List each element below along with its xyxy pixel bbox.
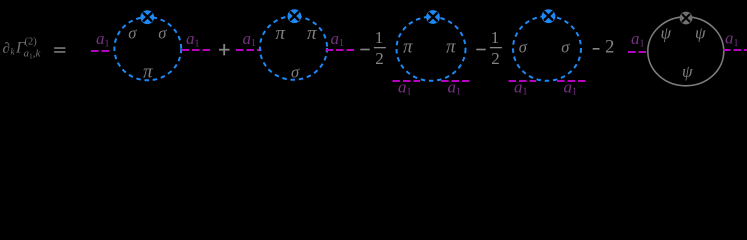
svg-text:1: 1 xyxy=(491,28,500,47)
svg-text:ψ: ψ xyxy=(661,24,672,43)
LHS: dk Gamma^(2)_a1,k xyxy=(3,36,42,60)
external leg a1 (right) xyxy=(723,49,747,51)
fraction 1/2 xyxy=(374,28,386,68)
external leg a1 (right) xyxy=(326,49,357,51)
svg-text:ψ: ψ xyxy=(695,24,706,43)
svg-text:σ: σ xyxy=(128,24,137,43)
svg-text:π: π xyxy=(276,23,286,44)
svg-text:σ: σ xyxy=(158,24,167,43)
regulator insertion xyxy=(542,9,556,23)
svg-text:σ: σ xyxy=(291,63,300,82)
fermion loop circle (solid gray) xyxy=(648,17,724,86)
external leg a1 (right) xyxy=(182,49,213,51)
svg-text:π: π xyxy=(446,37,456,58)
minus sign 1 xyxy=(360,49,369,51)
fraction 1/2 (second) xyxy=(490,28,502,68)
svg-text:∂: ∂ xyxy=(3,41,10,57)
svg-text:2: 2 xyxy=(375,49,384,68)
regulator insertion xyxy=(426,10,440,24)
regulator insertion (gray) xyxy=(680,12,693,25)
loop circle xyxy=(260,16,327,80)
svg-text:2: 2 xyxy=(491,49,500,68)
regulator insertion xyxy=(288,9,302,23)
svg-text:π: π xyxy=(403,37,413,58)
loop circle (blue dashed) xyxy=(114,17,181,80)
minus sign 2 xyxy=(476,49,485,51)
svg-text:2: 2 xyxy=(605,38,614,58)
plus sign xyxy=(219,44,230,55)
external leg a1 (bottom left) xyxy=(393,80,421,82)
svg-text:σ: σ xyxy=(561,37,570,56)
external leg a1 (left) xyxy=(628,51,648,53)
external leg a1 (bottom left) xyxy=(509,80,537,82)
svg-text:π: π xyxy=(143,61,153,82)
equals sign xyxy=(54,47,65,52)
svg-text:σ: σ xyxy=(519,37,528,56)
external leg a1 (bottom right) xyxy=(557,80,586,82)
minus sign 3 xyxy=(593,48,600,50)
loop circle xyxy=(513,16,581,81)
svg-text:π: π xyxy=(307,23,317,44)
svg-text:(2): (2) xyxy=(25,36,38,47)
regulator insertion (crossed circle) xyxy=(140,10,154,24)
external leg a1 (bottom right) xyxy=(441,80,470,82)
external leg a1 (left, dashed magenta) xyxy=(91,50,112,52)
svg-text:a1,k: a1,k xyxy=(24,48,42,61)
svg-text:1: 1 xyxy=(375,28,384,47)
loop circle xyxy=(397,17,466,81)
external leg a1 (left) xyxy=(236,49,262,51)
svg-text:ψ: ψ xyxy=(682,62,693,81)
